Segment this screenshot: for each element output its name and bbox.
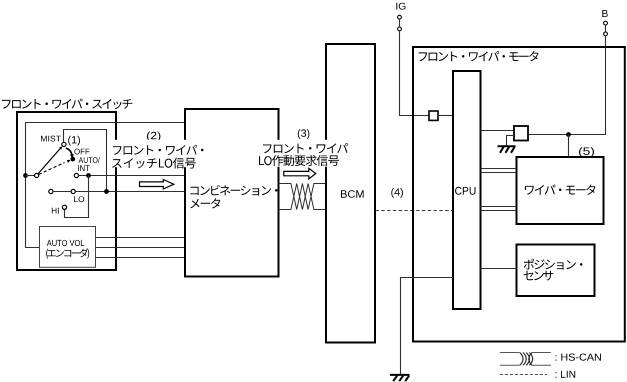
- box: AUTO VOL (encoder): [40, 227, 96, 268]
- bus: HS-CAN twisted pair meter to BCM: [279, 184, 327, 210]
- wire: INT output to meter: [79, 175, 186, 177]
- ground: motor circuit chassis ground: [498, 146, 516, 153]
- label HI: [52, 208, 59, 214]
- wire: junction down to wiper motor: [568, 135, 570, 158]
- arrow: signal (3): [284, 168, 316, 179]
- mask: white behind signal (2) text: [112, 140, 208, 167]
- label スイッチLO信号: [112, 158, 196, 169]
- label B: [602, 10, 607, 17]
- connector: IG inline square: [429, 111, 438, 120]
- contact: pivot (movable): [35, 173, 39, 177]
- wire: switch lever to MIST: [38, 147, 61, 173]
- wire: common to pivot: [26, 175, 35, 177]
- label センサ: [524, 271, 554, 281]
- wire: dashed lever to AUTO: [39, 163, 65, 175]
- node: motor supply junction: [566, 132, 571, 137]
- label ポジション・: [524, 259, 583, 270]
- label (3): [298, 129, 310, 139]
- wire: CPU to wiper motor pair 1: [481, 168, 517, 170]
- arc: rotation arrow MIST to AUTO: [66, 148, 72, 155]
- legend: HS-CAN twisted pair symbol: [500, 353, 551, 366]
- label ワイパ・モータ: [525, 185, 596, 195]
- box: combination meter: [185, 109, 279, 277]
- label IG: [396, 3, 405, 10]
- box: front wiper motor assembly: [413, 47, 625, 342]
- wire: HI branch: [65, 176, 89, 218]
- label (2): [147, 132, 160, 142]
- label AUTO/: [79, 157, 100, 163]
- label BCM: [341, 190, 364, 198]
- label (4): [391, 188, 403, 198]
- label LO作動要求信号: [259, 155, 339, 166]
- wire: CPU to wiper motor pair 2: [481, 206, 517, 208]
- bus: LIN dashed BCM to CPU: [376, 210, 453, 212]
- wire: IG to CPU: [400, 31, 430, 116]
- node: INT line junction: [86, 173, 91, 178]
- label OFF: [74, 149, 89, 155]
- wire: CPU to motor supply node: [481, 130, 515, 132]
- label フロント・ワイパ・スイッチ: [2, 99, 132, 110]
- terminal: IG connector circles: [398, 15, 402, 19]
- legend: LIN dashed symbol: [500, 374, 547, 376]
- contact: HI: [62, 205, 66, 209]
- wire: switch feed from meter: [26, 123, 186, 248]
- label MIST: [41, 136, 61, 142]
- mask: white behind signal (3) text: [258, 140, 351, 167]
- contact: AUTO (closed dot): [70, 157, 75, 162]
- box: position sensor: [517, 245, 595, 297]
- wire: LO line to meter: [53, 191, 71, 193]
- box: BCM: [326, 44, 375, 343]
- label (5): [579, 147, 594, 157]
- box: wiper motor: [517, 157, 604, 224]
- label AUTO VOL: [47, 240, 84, 246]
- contact: INT: [74, 173, 78, 177]
- contact: MIST: [62, 142, 66, 146]
- label コンビネーション・: [190, 185, 277, 196]
- label INT: [78, 165, 89, 171]
- wire: B feed down to motor node: [528, 36, 606, 135]
- node: LO/MIST junction: [104, 189, 109, 194]
- legend label : HS-CAN: [555, 354, 601, 361]
- label フロント・ワイパ・ (2): [113, 145, 204, 155]
- label フロント・ワイパ (3): [263, 143, 348, 153]
- legend label : LIN: [555, 371, 575, 378]
- arrowhead: dashed lever: [67, 160, 71, 163]
- label CPU: [455, 187, 475, 195]
- contact: LO left: [49, 189, 53, 193]
- label メータ: [190, 198, 220, 208]
- label (エンコーダ): [46, 248, 89, 258]
- box: front wiper switch: [17, 112, 116, 270]
- wire: CPU ground run: [401, 278, 454, 375]
- box: CPU: [453, 71, 481, 309]
- arrow: signal (2): [140, 180, 174, 190]
- terminal: B connector circles: [604, 21, 608, 25]
- label LO: [74, 196, 84, 202]
- arrowhead: lever at MIST: [59, 146, 62, 149]
- label (1): [68, 136, 80, 146]
- connector: motor feed inline square: [514, 126, 528, 141]
- contact: LO right: [71, 189, 75, 193]
- wire: ground tap from square: [507, 136, 515, 146]
- label フロント・ワイパ・モータ: [419, 51, 539, 61]
- ground: motor assembly chassis ground: [390, 375, 410, 381]
- wire: CPU to position sensor: [481, 268, 517, 270]
- wire: MIST riser and top route: [64, 130, 107, 192]
- node: switch common junction: [23, 173, 28, 178]
- wire: encoder outputs to meter x3: [96, 237, 186, 239]
